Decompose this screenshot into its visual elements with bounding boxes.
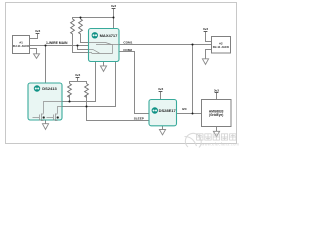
svg-text:3v3: 3v3 xyxy=(158,87,163,91)
svg-text:DS28E17: DS28E17 xyxy=(159,108,177,113)
svg-text:COM1: COM1 xyxy=(123,41,132,45)
svg-text:3v3: 3v3 xyxy=(203,27,208,31)
svg-text:RJ-11 JACK: RJ-11 JACK xyxy=(213,45,230,49)
svg-text:RJ-11 JACK: RJ-11 JACK xyxy=(13,44,30,48)
svg-text:3v3: 3v3 xyxy=(75,73,80,77)
svg-text:COM2: COM2 xyxy=(123,48,132,52)
svg-text:SLEEP: SLEEP xyxy=(134,116,144,120)
svg-text:3v3: 3v3 xyxy=(214,88,219,92)
svg-text:3v3: 3v3 xyxy=(35,29,40,33)
svg-text:www.elecfans.com: www.elecfans.com xyxy=(201,142,239,147)
svg-text:I2C: I2C xyxy=(182,107,188,111)
svg-text:(GridEye): (GridEye) xyxy=(209,113,223,117)
svg-text:3v3: 3v3 xyxy=(111,4,116,8)
svg-text:DS2413: DS2413 xyxy=(42,86,57,91)
svg-text:MAX4717: MAX4717 xyxy=(100,33,119,38)
svg-text:1-WIRE MAIN: 1-WIRE MAIN xyxy=(46,41,68,45)
